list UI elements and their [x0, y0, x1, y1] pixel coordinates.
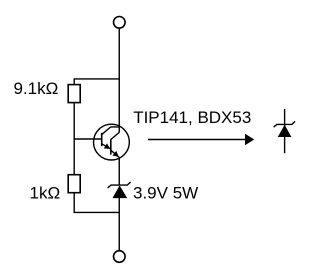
svg-text:TIP141, BDX53: TIP141, BDX53 — [133, 108, 251, 127]
resistor R2 — [68, 175, 80, 193]
zener diode D1 — [108, 182, 131, 198]
terminal: top — [114, 17, 126, 29]
svg-text:3.9V 5W: 3.9V 5W — [133, 184, 198, 203]
svg-text:9.1kΩ: 9.1kΩ — [14, 79, 59, 98]
wire: top branch to R1 — [74, 79, 119, 85]
svg-text:1kΩ: 1kΩ — [30, 183, 61, 202]
wire: R2 bottom to bottom rail — [74, 193, 119, 213]
arrow — [148, 134, 254, 145]
wire: top terminal to collector — [118, 29, 120, 133]
transistor Q1 (Darlington TIP141/BDX53) — [94, 124, 130, 160]
wire: base — [74, 138, 102, 140]
terminal: bottom — [114, 251, 126, 263]
resistor R1 — [68, 85, 80, 103]
wire: zener to bottom terminal — [118, 196, 120, 251]
wire: emitter to zener — [118, 159, 120, 186]
wire: R1 bottom to R2 top — [73, 103, 75, 175]
zener diode D2 — [274, 109, 296, 153]
